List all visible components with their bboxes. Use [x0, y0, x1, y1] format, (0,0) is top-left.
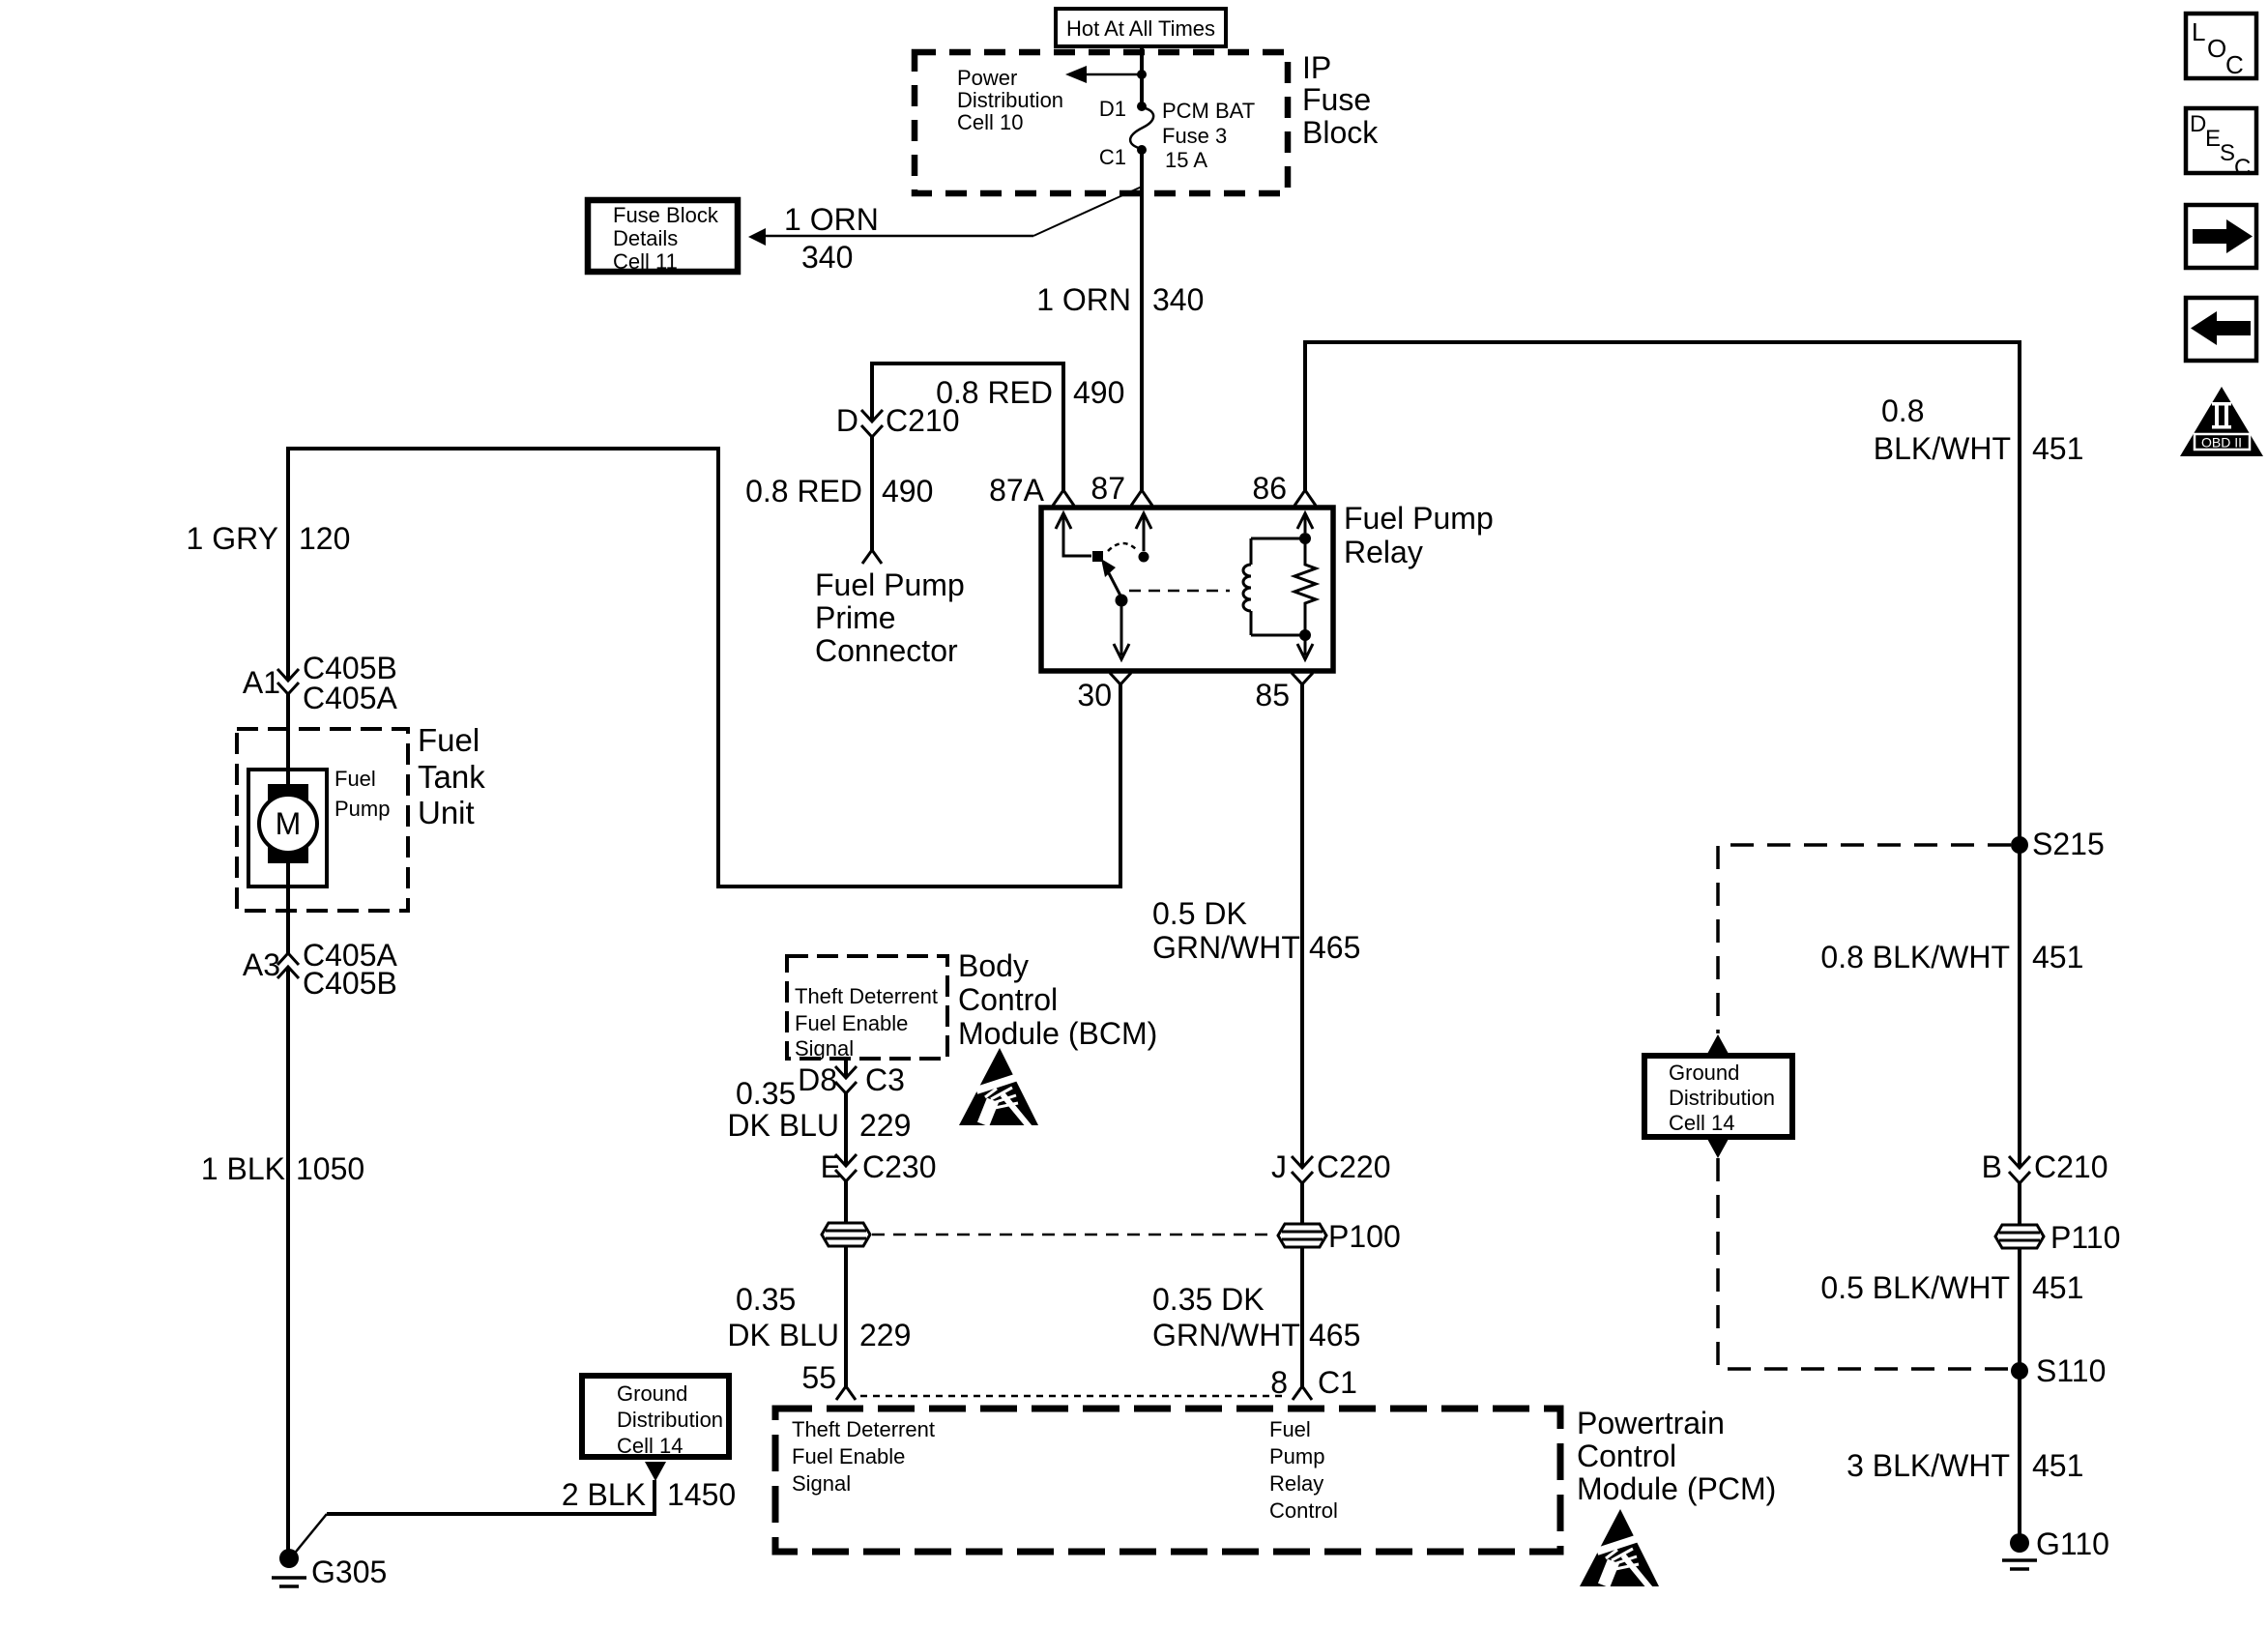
svg-text:0.5 BLK/WHT: 0.5 BLK/WHT — [1820, 1270, 2010, 1305]
svg-text:Signal: Signal — [795, 1036, 854, 1061]
svg-text:D: D — [2190, 111, 2206, 137]
svg-text:55: 55 — [801, 1360, 836, 1395]
svg-text:0.8 RED: 0.8 RED — [745, 474, 862, 509]
svg-text:Hot At All Times: Hot At All Times — [1066, 16, 1215, 41]
svg-text:0.8 BLK/WHT: 0.8 BLK/WHT — [1820, 940, 2010, 974]
svg-text:229: 229 — [859, 1108, 911, 1143]
svg-text:C1: C1 — [1099, 145, 1126, 169]
svg-text:Fuel Enable: Fuel Enable — [792, 1444, 905, 1468]
svg-text:Relay: Relay — [1269, 1471, 1323, 1496]
svg-text:Relay: Relay — [1344, 535, 1423, 569]
svg-text:Cell 10: Cell 10 — [957, 110, 1023, 134]
svg-text:Pump: Pump — [334, 797, 390, 821]
svg-text:Fuse Block: Fuse Block — [613, 203, 719, 227]
svg-text:229: 229 — [859, 1318, 911, 1352]
svg-text:D8: D8 — [798, 1062, 837, 1097]
svg-text:0.5 DK: 0.5 DK — [1152, 896, 1247, 931]
svg-text:L: L — [2192, 17, 2205, 46]
svg-text:465: 465 — [1309, 930, 1360, 965]
svg-text:1050: 1050 — [296, 1151, 364, 1186]
svg-text:0.35: 0.35 — [736, 1282, 796, 1317]
svg-text:1 GRY: 1 GRY — [187, 521, 278, 556]
svg-text:Control: Control — [1269, 1498, 1338, 1523]
svg-text:Ground: Ground — [617, 1381, 687, 1406]
svg-text:Control: Control — [958, 982, 1058, 1017]
svg-text:0.35 DK: 0.35 DK — [1152, 1282, 1265, 1317]
svg-text:C1: C1 — [1318, 1365, 1357, 1400]
svg-text:87A: 87A — [989, 473, 1045, 508]
svg-text:451: 451 — [2032, 1270, 2083, 1305]
svg-text:O: O — [2207, 34, 2226, 63]
svg-text:1 BLK: 1 BLK — [201, 1151, 285, 1186]
svg-text:0.8: 0.8 — [1881, 393, 1924, 428]
svg-text:PCM BAT: PCM BAT — [1162, 99, 1255, 123]
svg-text:8: 8 — [1270, 1365, 1288, 1400]
svg-text:D: D — [836, 403, 858, 438]
svg-text:S215: S215 — [2032, 827, 2105, 861]
svg-text:Block: Block — [1302, 115, 1379, 150]
svg-text:C: C — [2234, 155, 2251, 181]
svg-text:Distribution: Distribution — [957, 88, 1063, 112]
svg-text:C: C — [2225, 50, 2244, 79]
svg-text:E: E — [2205, 126, 2221, 152]
svg-text:Details: Details — [613, 226, 678, 250]
svg-text:1 ORN: 1 ORN — [1036, 282, 1131, 317]
svg-text:B: B — [1982, 1149, 2002, 1184]
svg-text:Module (PCM): Module (PCM) — [1577, 1471, 1776, 1506]
svg-text:M: M — [276, 806, 302, 841]
svg-text:Ground: Ground — [1669, 1061, 1739, 1085]
svg-text:P100: P100 — [1328, 1219, 1401, 1254]
svg-text:S110: S110 — [2036, 1353, 2106, 1388]
svg-text:85: 85 — [1255, 678, 1290, 712]
svg-text:DK BLU: DK BLU — [727, 1108, 839, 1143]
svg-text:451: 451 — [2032, 940, 2083, 974]
svg-text:0.35: 0.35 — [736, 1076, 796, 1111]
svg-text:C210: C210 — [886, 403, 960, 438]
svg-text:Power: Power — [957, 66, 1017, 90]
svg-text:C405A: C405A — [303, 681, 398, 715]
svg-text:30: 30 — [1077, 678, 1112, 712]
svg-text:Powertrain: Powertrain — [1577, 1406, 1725, 1440]
svg-text:Fuel Enable: Fuel Enable — [795, 1011, 908, 1035]
svg-text:Unit: Unit — [418, 795, 475, 830]
svg-text:E: E — [821, 1149, 841, 1184]
svg-text:Cell 14: Cell 14 — [1669, 1111, 1734, 1135]
svg-text:15 A: 15 A — [1165, 148, 1207, 172]
svg-text:Connector: Connector — [815, 633, 958, 668]
svg-text:P110: P110 — [2050, 1220, 2120, 1255]
svg-text:OBD II: OBD II — [2201, 435, 2242, 451]
svg-text:490: 490 — [1073, 375, 1124, 410]
svg-text:D1: D1 — [1099, 97, 1126, 121]
svg-text:C230: C230 — [862, 1149, 937, 1184]
svg-text:Module (BCM): Module (BCM) — [958, 1016, 1157, 1051]
svg-text:S: S — [2220, 140, 2235, 166]
svg-text:C3: C3 — [865, 1062, 905, 1097]
svg-text:340: 340 — [801, 240, 853, 275]
svg-text:Tank: Tank — [418, 759, 485, 795]
svg-text:465: 465 — [1309, 1318, 1360, 1352]
svg-text:340: 340 — [1152, 282, 1204, 317]
svg-text:A1: A1 — [243, 665, 280, 700]
svg-text:Fuse: Fuse — [1302, 82, 1371, 117]
svg-text:Distribution: Distribution — [1669, 1086, 1775, 1110]
svg-text:Body: Body — [958, 948, 1029, 983]
svg-text:IP: IP — [1302, 50, 1331, 85]
svg-text:Signal: Signal — [792, 1471, 851, 1496]
svg-text:1 ORN: 1 ORN — [784, 202, 879, 237]
svg-text:G110: G110 — [2036, 1526, 2109, 1561]
svg-text:DK BLU: DK BLU — [727, 1318, 839, 1352]
svg-text:451: 451 — [2032, 1448, 2083, 1483]
svg-text:Fuel Pump: Fuel Pump — [1344, 501, 1494, 536]
svg-text:Control: Control — [1577, 1439, 1676, 1473]
svg-text:87: 87 — [1090, 471, 1125, 506]
svg-text:A3: A3 — [243, 947, 280, 982]
svg-text:Fuse 3: Fuse 3 — [1162, 124, 1227, 148]
svg-text:Distribution: Distribution — [617, 1408, 723, 1432]
svg-text:Theft Deterrent: Theft Deterrent — [792, 1417, 935, 1441]
svg-text:1450: 1450 — [667, 1477, 736, 1512]
svg-text:GRN/WHT: GRN/WHT — [1152, 930, 1300, 965]
svg-text:C220: C220 — [1317, 1149, 1391, 1184]
svg-text:C210: C210 — [2034, 1149, 2108, 1184]
svg-text:86: 86 — [1252, 471, 1287, 506]
svg-text:2 BLK: 2 BLK — [562, 1477, 646, 1512]
svg-text:C405B: C405B — [303, 966, 397, 1001]
svg-text:Fuel: Fuel — [418, 722, 480, 758]
svg-text:Fuel: Fuel — [1269, 1417, 1311, 1441]
svg-text:451: 451 — [2032, 431, 2083, 466]
svg-text:Pump: Pump — [1269, 1444, 1324, 1468]
svg-text:BLK/WHT: BLK/WHT — [1874, 431, 2011, 466]
svg-text:Cell 14: Cell 14 — [617, 1434, 683, 1458]
svg-text:3 BLK/WHT: 3 BLK/WHT — [1846, 1448, 2010, 1483]
svg-text:120: 120 — [299, 521, 350, 556]
svg-text:G305: G305 — [311, 1555, 387, 1589]
svg-text:490: 490 — [882, 474, 933, 509]
svg-text:Fuel: Fuel — [334, 767, 376, 791]
svg-text:Prime: Prime — [815, 600, 896, 635]
svg-text:J: J — [1271, 1149, 1287, 1184]
svg-text:GRN/WHT: GRN/WHT — [1152, 1318, 1300, 1352]
svg-text:Theft Deterrent: Theft Deterrent — [795, 984, 938, 1008]
svg-text:Cell 11: Cell 11 — [613, 249, 678, 274]
svg-text:Fuel Pump: Fuel Pump — [815, 567, 965, 602]
